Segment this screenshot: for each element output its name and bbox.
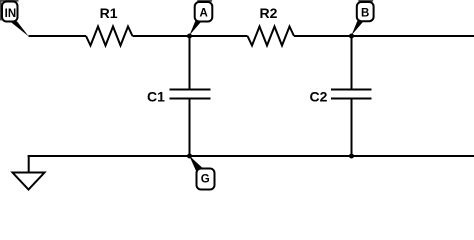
node G — [197, 169, 215, 190]
resistor R2 — [248, 27, 295, 46]
svg-text:R2: R2 — [260, 5, 278, 21]
svg-text:R1: R1 — [100, 5, 118, 21]
node B — [357, 2, 374, 21]
ground — [13, 173, 45, 190]
wire A segment (R1 to R2) — [133, 35, 248, 37]
wire ground stub — [28, 155, 30, 173]
node IN — [2, 2, 18, 22]
node A flag shadow — [197, 0, 212, 2]
resistor R1 — [86, 27, 133, 46]
wire C1 top branch — [189, 36, 191, 89]
wire C2 bottom branch — [351, 100, 353, 157]
wire C2 top branch — [351, 36, 353, 89]
wire B to right edge — [294, 35, 474, 37]
capacitor C2 — [331, 90, 372, 99]
node G flag tail — [189, 156, 204, 172]
junction node B — [349, 34, 354, 39]
svg-text:C1: C1 — [147, 89, 165, 105]
svg-text:A: A — [199, 8, 207, 20]
junction node G — [187, 154, 192, 159]
svg-text:B: B — [361, 8, 369, 20]
wire C1 bottom branch — [189, 100, 191, 157]
wire IN to R1 — [29, 35, 87, 37]
svg-text:C2: C2 — [310, 89, 328, 105]
capacitor C1 — [170, 90, 211, 99]
node B flag shadow — [358, 0, 373, 2]
svg-text:G: G — [201, 173, 210, 185]
junction C2-rail — [349, 154, 354, 159]
node IN flag shadow — [0, 0, 19, 21]
junction node A — [187, 34, 192, 39]
node A flag tail — [190, 20, 202, 35]
node B flag tail — [352, 20, 364, 35]
wire ground rail — [28, 155, 474, 157]
svg-text:IN: IN — [5, 8, 17, 20]
node A — [195, 2, 213, 22]
node IN flag tail — [10, 21, 29, 36]
